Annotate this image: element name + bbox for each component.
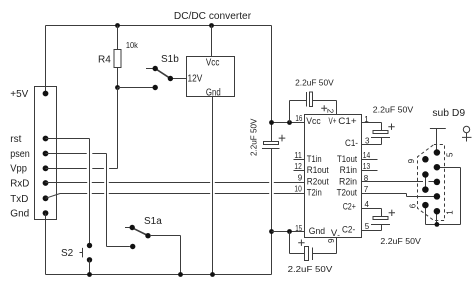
X1 pin5 wire to chassis bar xyxy=(430,129,446,153)
node junction top rail / R4 xyxy=(115,23,120,28)
capacitor C1 box plate (+) xyxy=(373,131,388,134)
capacitor C5 branch wire from pin15 xyxy=(290,232,305,254)
svg-text:8: 8 xyxy=(364,174,369,183)
switch S2 actuator xyxy=(80,248,83,258)
X1 tie pin8-pin7 xyxy=(425,175,427,190)
svg-text:Gnd: Gnd xyxy=(206,87,221,98)
svg-text:5: 5 xyxy=(365,222,370,231)
svg-text:7: 7 xyxy=(364,185,369,194)
svg-text:C1+: C1+ xyxy=(338,116,357,127)
svg-text:sub D9: sub D9 xyxy=(432,108,465,119)
capacitor C4 right wire to V+ pin2 xyxy=(313,101,337,115)
svg-text:2: 2 xyxy=(326,109,335,114)
svg-text:Vcc: Vcc xyxy=(306,116,321,127)
X1 pin1 drop to bottom loop xyxy=(436,211,438,224)
svg-text:13: 13 xyxy=(363,162,371,171)
DC/DC converter module box xyxy=(187,57,235,97)
X1 tie pin6 to bottom loop xyxy=(425,205,427,224)
X1 left column pin dots 9,8,7,6 xyxy=(422,156,429,163)
wire rst to S2 vertical xyxy=(46,139,90,246)
svg-text:12: 12 xyxy=(294,162,302,171)
capacitor C1 plus sign xyxy=(388,124,394,130)
wire psen to S1a lower throw xyxy=(46,154,130,247)
wire rail below C3 to ground rail xyxy=(271,149,273,275)
wire U1 pin7 T2out to X1 pin2 xyxy=(362,194,437,197)
switch S1b upper throw stub xyxy=(146,68,153,70)
svg-text:R2in: R2in xyxy=(339,176,357,186)
node junction C5 branch / pin15 wire xyxy=(287,229,292,234)
svg-text:RxD: RxD xyxy=(10,179,29,190)
female connector symbol xyxy=(463,126,469,132)
node junction R4 / S1b / Vpp xyxy=(115,85,120,90)
wire pin15 Gnd into U1 xyxy=(272,231,305,233)
U1 pin 13 stub xyxy=(362,170,378,172)
wire TxD to U1 pin10 T2in xyxy=(46,194,305,199)
capacitor C2 wire to pin5 C2- xyxy=(362,225,382,231)
U1 pin 11 stub xyxy=(294,159,305,161)
switch S1a upper throw stub xyxy=(125,227,130,229)
capacitor C4 branch left wire xyxy=(290,101,307,123)
svg-text:5: 5 xyxy=(446,152,455,157)
svg-text:16: 16 xyxy=(295,114,302,123)
svg-text:C1-: C1- xyxy=(345,138,358,148)
svg-text:S1a: S1a xyxy=(144,216,162,227)
capacitor C2 wire from pin4 C2+ xyxy=(362,209,382,217)
svg-text:S1b: S1b xyxy=(161,54,179,65)
svg-text:12V: 12V xyxy=(188,74,203,85)
capacitor C3 box plate (+) xyxy=(264,142,279,145)
node junction S1a / ground rail xyxy=(178,272,183,277)
X1 bottom loop wire to pin4 xyxy=(426,168,461,225)
wire right rail vertical from top rail down to C3 top plate xyxy=(271,26,273,142)
node junction rail / pin16 wire xyxy=(269,120,274,125)
svg-text:10: 10 xyxy=(294,184,302,193)
wire RxD to U1 pin9 R2out xyxy=(46,182,305,184)
wire Vpp to R4 junction xyxy=(46,88,118,169)
capacitor C2 plus sign xyxy=(389,210,395,216)
node junction pin1 drop / bottom loop xyxy=(435,222,440,227)
svg-text:14: 14 xyxy=(363,151,371,160)
svg-text:2.2uF 50V: 2.2uF 50V xyxy=(248,118,258,156)
node junction C4 branch / pin16 wire xyxy=(287,120,292,125)
svg-text:T2in: T2in xyxy=(307,188,322,198)
wire S2 to ground rail xyxy=(89,260,91,275)
svg-text:2.2uF 50V: 2.2uF 50V xyxy=(380,236,421,246)
wire +5V vertical from top rail to connector pin +5V xyxy=(45,26,47,95)
svg-text:6: 6 xyxy=(326,239,335,244)
capacitor C1 wire to pin3 C1- xyxy=(362,138,382,145)
capacitor C5 plus sign xyxy=(298,240,304,246)
wire Gnd pin down to ground rail xyxy=(45,213,47,274)
svg-text:T2out: T2out xyxy=(337,188,358,198)
node junction rail / pin15 wire xyxy=(269,229,274,234)
svg-text:9: 9 xyxy=(407,158,416,163)
svg-text:Vpp: Vpp xyxy=(10,164,27,175)
svg-text:C2+: C2+ xyxy=(343,202,356,212)
node junction top rail / DCDC Vcc xyxy=(209,23,214,28)
connector K1 body xyxy=(35,87,57,220)
switch S1b pole wire to 12V input xyxy=(173,78,187,80)
svg-text:2.2uF 50V: 2.2uF 50V xyxy=(295,77,334,87)
capacitor C5 box plate (+) xyxy=(305,247,309,261)
U1 pin 14 stub xyxy=(362,159,378,161)
svg-text:+5V: +5V xyxy=(10,89,28,100)
svg-text:1: 1 xyxy=(445,210,454,215)
switch S1b arm xyxy=(156,69,169,78)
capacitor C5 solid plate xyxy=(312,248,314,261)
svg-text:3: 3 xyxy=(365,137,370,146)
capacitor C3 plus sign xyxy=(279,135,286,142)
svg-text:2.2uF 50V: 2.2uF 50V xyxy=(288,264,333,274)
wire DCDC Gnd down to ground rail xyxy=(212,97,214,275)
X1 right column pin dots 5,4,3,2,1 xyxy=(434,149,441,156)
svg-text:9: 9 xyxy=(298,174,303,183)
capacitor C4 plus sign xyxy=(321,105,327,111)
connector X1 sub D9 dashed outline xyxy=(418,145,445,221)
switch S1a arm xyxy=(133,228,146,235)
svg-text:R4: R4 xyxy=(98,55,111,66)
IC U1 MAX232 body xyxy=(305,115,362,238)
svg-text:R1in: R1in xyxy=(340,165,357,175)
capacitor C2 box plate (+) xyxy=(373,217,388,220)
capacitor C3 solid plate xyxy=(262,148,280,150)
svg-text:T1in: T1in xyxy=(307,154,322,164)
svg-text:C2-: C2- xyxy=(342,224,355,234)
capacitor C1 wire from pin1 C1+ xyxy=(362,123,382,131)
switch S2 pushbutton contact dots xyxy=(87,243,92,248)
svg-text:15: 15 xyxy=(295,224,302,233)
svg-text:T1out: T1out xyxy=(337,154,357,164)
resistor R4 body xyxy=(114,50,121,68)
svg-text:Gnd: Gnd xyxy=(309,226,325,237)
svg-text:rst: rst xyxy=(10,134,21,145)
wire ground rail bottom xyxy=(46,274,272,276)
U1 pin 12 stub xyxy=(294,170,305,172)
switch S1a contact dots xyxy=(130,225,135,230)
svg-text:10k: 10k xyxy=(126,40,139,50)
svg-text:6: 6 xyxy=(408,203,417,208)
svg-text:11: 11 xyxy=(294,151,302,160)
svg-text:Gnd: Gnd xyxy=(10,209,29,220)
node junction S2 / ground rail xyxy=(87,272,92,277)
capacitor C2 solid plate xyxy=(371,224,390,226)
svg-text:R2out: R2out xyxy=(307,176,329,186)
svg-text:2.2uF 50V: 2.2uF 50V xyxy=(373,105,414,115)
wire pin16 Vcc into U1 xyxy=(272,122,305,124)
switch S1b lower throw wire from R4 junction xyxy=(118,87,153,89)
wire DCDC Vcc from top rail xyxy=(211,26,213,57)
svg-text:4: 4 xyxy=(365,200,370,209)
svg-text:TxD: TxD xyxy=(10,194,28,205)
svg-text:V+: V+ xyxy=(329,116,337,127)
capacitor C5 right wire to V- pin6 xyxy=(313,238,337,254)
svg-text:S2: S2 xyxy=(61,248,74,259)
resistor R4 leads xyxy=(117,26,119,88)
connector K1 pin dots xyxy=(43,91,49,97)
wire U1 pin8 R2in to X1 pin3 xyxy=(362,181,437,183)
svg-text:DC/DC converter: DC/DC converter xyxy=(174,11,252,22)
svg-text:psen: psen xyxy=(10,149,30,160)
svg-text:Vcc: Vcc xyxy=(206,58,220,69)
capacitor C4 box plate (+) xyxy=(310,92,313,107)
capacitor C1 solid plate xyxy=(371,137,390,139)
wire top +V rail horizontal xyxy=(46,25,272,27)
switch S1a pole wire to ground rail xyxy=(151,236,181,275)
capacitor C4 solid plate xyxy=(306,92,308,107)
svg-text:R1out: R1out xyxy=(307,165,329,175)
svg-text:1: 1 xyxy=(364,115,369,124)
node junction DCDC Gnd / ground rail xyxy=(210,272,215,277)
switch S1b contact dots xyxy=(153,66,158,71)
